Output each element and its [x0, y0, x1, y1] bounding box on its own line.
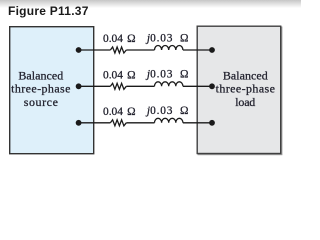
wire line c middle: [126, 122, 154, 124]
node dot line a left: [76, 47, 82, 53]
svg-text:load: load: [235, 95, 255, 109]
wire line c (row 3): [79, 122, 111, 124]
wire line a (row 1): [79, 49, 111, 51]
node dot line a right: [209, 47, 215, 53]
wire line b right: [183, 85, 212, 87]
inductor line a j0.03 ohm: [155, 45, 183, 50]
svg-text:j0.03Ω: j0.03Ω: [145, 69, 189, 81]
node dot line c left: [76, 120, 82, 126]
load box: [197, 26, 281, 153]
svg-text:0.04Ω: 0.04Ω: [103, 69, 136, 81]
source box: [10, 27, 94, 154]
figure title: [8, 4, 89, 18]
load box shadow: [198, 27, 282, 154]
header gradient band: [0, 0, 301, 8]
svg-text:three-phase: three-phase: [216, 82, 275, 96]
wire line a right: [183, 49, 212, 51]
svg-text:Balanced: Balanced: [18, 68, 63, 82]
svg-text:0.04Ω: 0.04Ω: [103, 106, 136, 118]
resistor line b 0.04 ohm: [110, 83, 126, 89]
resistor line a 0.04 ohm: [110, 47, 126, 53]
inductor line b j0.03 ohm: [155, 82, 183, 87]
wire line b (row 2): [79, 85, 111, 87]
svg-text:Balanced: Balanced: [223, 68, 268, 82]
wire line b middle: [126, 85, 154, 87]
resistor line c 0.04 ohm: [110, 120, 126, 126]
svg-text:j0.03Ω: j0.03Ω: [145, 105, 189, 117]
wire line a middle: [126, 49, 154, 51]
inductor line c j0.03 ohm: [155, 118, 183, 123]
node dot line b right: [209, 83, 215, 89]
svg-text:0.04Ω: 0.04Ω: [103, 33, 136, 45]
wire line c right: [183, 122, 212, 124]
svg-text:source: source: [24, 95, 58, 109]
node dot line b left: [76, 83, 82, 89]
svg-text:three-phase: three-phase: [11, 82, 70, 96]
svg-text:j0.03Ω: j0.03Ω: [145, 32, 189, 44]
node dot line c right: [209, 120, 215, 126]
